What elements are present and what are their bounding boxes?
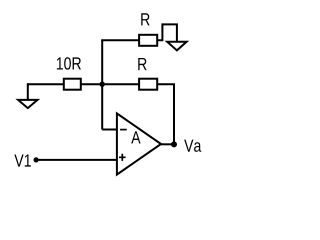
ground (top right) [167, 42, 186, 51]
op-amp A [117, 113, 161, 174]
wire: plus input from V1 [36, 159, 117, 161]
node V1 terminal dot [34, 157, 39, 162]
label Va [184, 140, 201, 152]
resistor R (middle) [139, 79, 157, 90]
ground (left) [18, 100, 37, 108]
wire: 10R to middle R [81, 83, 139, 85]
label V1 [14, 154, 30, 166]
wire: minus input [102, 129, 117, 131]
wire: left ground drop [27, 83, 29, 100]
wire: left ground to 10R [28, 83, 64, 85]
label 10R [57, 57, 81, 69]
node Va output dot [171, 141, 177, 147]
op-amp plus pin mark [119, 154, 126, 161]
resistor R (top feedback) [139, 35, 157, 46]
resistor 10R [64, 79, 81, 90]
label A (op-amp gain) [131, 131, 140, 143]
wire: op-amp output [160, 143, 174, 145]
wire: middle R to output rail [157, 84, 174, 144]
wire: top feedback rail [101, 39, 139, 41]
label R (middle resistor) [138, 58, 146, 70]
op-amp minus pin mark [120, 129, 127, 131]
wire: inverting input node vertical line [101, 40, 103, 129]
wire: top R to ground jog [157, 24, 177, 41]
label R (top resistor) [141, 13, 149, 25]
node junction dot (inverting node) [100, 82, 105, 87]
